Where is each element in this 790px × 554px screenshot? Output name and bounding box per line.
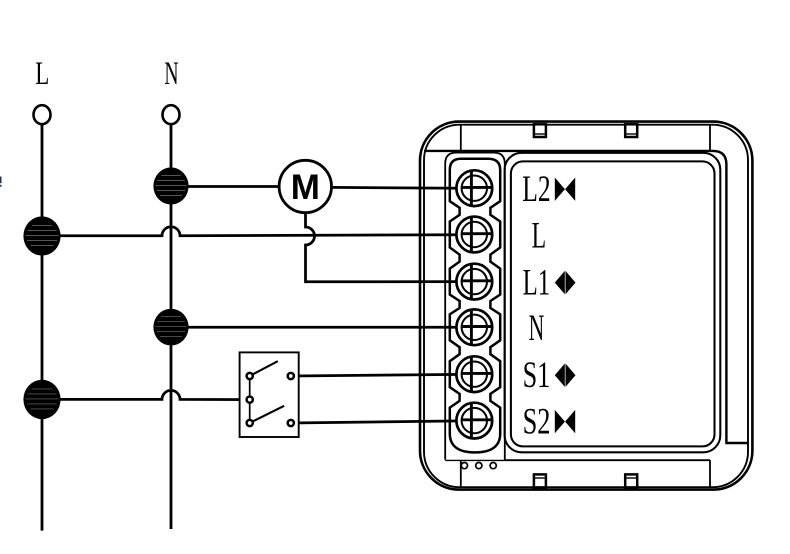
switch output dot S1	[288, 373, 294, 379]
top face edge right	[709, 125, 711, 151]
switch contact dot lower-left	[247, 420, 253, 426]
wire motor to terminal L2	[331, 186, 463, 190]
svg-text:S2: S2	[523, 401, 551, 442]
switch lever up	[250, 361, 278, 376]
device inner shell	[424, 125, 748, 488]
clip tab top-right	[625, 124, 637, 137]
top face edge left	[460, 125, 462, 151]
svg-text:S1: S1	[523, 354, 551, 395]
switch lever down	[250, 406, 285, 423]
label panel inner frame	[511, 161, 715, 446]
junction dot N-to-N-terminal	[153, 309, 188, 346]
terminal label S2	[523, 401, 576, 442]
svg-text:N: N	[529, 307, 545, 348]
terminal screw L	[456, 217, 492, 253]
terminal label L	[532, 214, 547, 255]
terminal screw L1	[456, 264, 492, 300]
label panel outer frame	[505, 153, 721, 453]
node L input terminal	[34, 105, 51, 124]
svg-text:L1: L1	[523, 262, 551, 303]
node N input terminal	[163, 105, 180, 124]
wire motor to terminal L1 (hop over L wire)	[306, 213, 464, 282]
device outer shell	[420, 122, 752, 490]
switch contact dot upper-left	[247, 373, 253, 379]
junction dot L-to-L-terminal	[23, 216, 60, 255]
switch output dot S2	[288, 420, 294, 426]
svg-text:N: N	[164, 56, 178, 92]
terminal screw N	[456, 309, 492, 345]
terminal label L2	[522, 168, 575, 209]
terminal label S1	[523, 354, 576, 395]
bottom face ledge	[445, 459, 710, 461]
LED hole 1	[461, 463, 467, 469]
wire N junction to motor	[171, 185, 280, 188]
switch pole bus	[249, 376, 251, 423]
bottom face edge right	[709, 460, 711, 487]
junction dot L-to-switch	[23, 380, 60, 419]
svg-text:L2: L2	[522, 168, 550, 209]
wire switch to terminal S2	[291, 421, 463, 423]
terminal strip boundary	[445, 153, 505, 460]
terminal screw S2	[456, 403, 492, 439]
LED hole 2	[476, 463, 482, 469]
svg-text:L: L	[532, 214, 547, 255]
wire L junction to switch common (hop over N wire)	[42, 390, 250, 399]
switch SW1 box	[240, 352, 299, 437]
clip tab bottom-right	[625, 474, 637, 487]
clip tab top-left	[534, 124, 546, 137]
LED hole 3	[490, 463, 496, 469]
front face lip	[424, 151, 748, 443]
switch common dot	[247, 397, 253, 403]
wire L vertical	[41, 125, 44, 531]
stray blue glyph fragment at left edge	[0, 177, 2, 187]
terminal label N	[529, 307, 545, 348]
terminal strip scalloped block	[450, 159, 500, 453]
motor M	[279, 160, 331, 212]
terminal screw S1	[456, 356, 492, 392]
clip tab bottom-left	[534, 474, 546, 487]
bottom face edge left	[460, 460, 462, 487]
wire N vertical	[170, 125, 173, 529]
wire N junction to terminal N (hop not needed)	[171, 326, 463, 329]
svg-text:M: M	[291, 168, 320, 207]
svg-text:L: L	[35, 56, 49, 92]
terminal label L1	[523, 262, 576, 303]
wire switch to terminal S1	[291, 374, 463, 376]
wire L junction to terminal L (hop over N wire)	[42, 227, 463, 236]
junction dot N-to-motor	[153, 167, 188, 204]
terminal screw L2	[456, 170, 492, 206]
